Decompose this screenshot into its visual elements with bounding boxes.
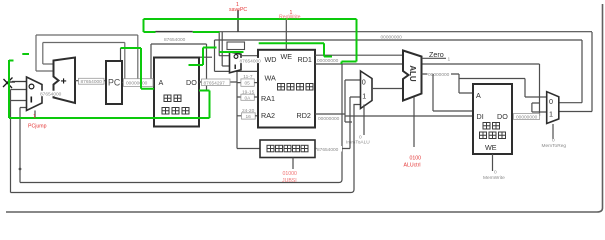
dark segment on y32 <box>156 31 193 33</box>
svg-text:ALU: ALU <box>408 65 417 82</box>
green: RegWrite right step down <box>342 19 357 64</box>
label value 00000000 ALU out <box>428 71 452 78</box>
label value 00000000 RD2 <box>318 116 342 122</box>
label value 87654000 at PC mux <box>40 91 64 98</box>
wire: PC enable stub <box>120 48 122 61</box>
wire: RD1 to ALU input A <box>315 54 403 56</box>
adder (PC+4) <box>54 58 76 104</box>
svg-text:00000000: 00000000 <box>126 81 148 87</box>
wire: RD2 out <box>315 113 345 115</box>
svg-text:WA: WA <box>265 74 277 83</box>
junction dot bottom left <box>19 168 22 171</box>
svg-text:0A: 0A <box>245 95 252 101</box>
svg-text:DI: DI <box>477 112 484 121</box>
svg-text:A: A <box>159 78 164 87</box>
svg-text:1: 1 <box>362 92 366 101</box>
svg-text:JUBSI: JUBSI <box>282 178 297 184</box>
mux MemToReg <box>547 92 559 124</box>
svg-text:1: 1 <box>549 110 553 119</box>
svg-text:PC: PC <box>108 78 121 88</box>
label 数据 pseudo glyphs <box>483 123 500 130</box>
label ALUctrl red <box>404 156 422 169</box>
svg-text:RD1: RD1 <box>298 55 312 64</box>
ALU <box>403 51 422 101</box>
wire: RD1 lower run y64 to right <box>315 63 540 65</box>
wire: PCjump mux out to adder input B <box>42 91 54 93</box>
svg-text:87654000: 87654000 <box>240 58 262 64</box>
svg-text:01000: 01000 <box>283 171 298 177</box>
wire: RD2 up to B-mux input 0 and DI run <box>345 80 473 122</box>
green: left bracket PCjump <box>9 60 14 118</box>
svg-text:0: 0 <box>362 78 366 87</box>
wire: ALU result to DM A <box>459 74 473 93</box>
label boxed 00000000 DM DO <box>514 114 540 121</box>
clock scribble <box>3 78 27 89</box>
wire: loop inner left into adder input A <box>43 43 54 65</box>
wire: ALU result right to MemToReg mux input 0 <box>459 79 547 98</box>
wire: savePC vertical <box>237 10 239 32</box>
wire: writeback top run 2 <box>215 39 583 41</box>
wire: bottom run 1 <box>20 64 342 183</box>
label 立即数生成 pseudo glyphs <box>267 145 308 152</box>
svg-text:A: A <box>476 91 481 100</box>
wire: PCjump mux select to green line <box>34 111 36 119</box>
label value 87654000 WD <box>239 58 264 65</box>
register file box <box>258 50 315 128</box>
label MemToReg <box>542 138 567 149</box>
svg-text:87654000: 87654000 <box>81 79 103 85</box>
label immgen select red <box>282 171 297 184</box>
mux PCjump (left) <box>27 77 43 111</box>
wire: adder out to PC <box>75 80 106 82</box>
mux WD (savePC mux) <box>230 52 242 73</box>
svg-text:0: 0 <box>552 138 555 144</box>
wire: PC+4 loop outer top <box>36 35 138 79</box>
label value 87654000 adder out boxed <box>79 78 105 85</box>
wire: bottom run 1 up-left to PC mux input <box>20 108 27 183</box>
svg-text:WE: WE <box>281 52 293 61</box>
wire: B-mux out to ALU input B <box>372 88 403 90</box>
mux ALU-B <box>361 71 373 109</box>
svg-text:87654297: 87654297 <box>204 80 226 86</box>
wire: immediate out to B-mux input 1 <box>315 97 361 149</box>
label 存储器 pseudo glyphs dm <box>480 132 506 139</box>
wire: bottom run 2 up-left to PC mux inputs <box>11 90 28 193</box>
label MemWrite <box>483 170 505 182</box>
svg-text:DO: DO <box>186 78 197 87</box>
svg-text:+: + <box>61 76 67 88</box>
svg-text:00000000: 00000000 <box>318 116 340 122</box>
svg-text:MemToReg: MemToReg <box>542 143 567 149</box>
svg-text:0: 0 <box>494 170 497 176</box>
label RegWrite <box>279 10 301 21</box>
svg-text:DO: DO <box>497 112 508 121</box>
wire: Zero out <box>422 50 451 63</box>
green: PC enable segment <box>121 48 155 89</box>
svg-text:RA2: RA2 <box>261 111 275 120</box>
svg-text:Zero: Zero <box>429 50 444 59</box>
bit slice 19-15 box <box>241 89 258 101</box>
immediate generator box <box>260 140 315 158</box>
label value 00000000 RD1 <box>317 58 341 64</box>
wire: WD mux out <box>241 55 260 57</box>
label value top 87654000 IM <box>164 37 186 43</box>
wire: ALU result branch down to DM DI lane <box>433 74 473 111</box>
svg-text:MemWrite: MemWrite <box>483 175 505 181</box>
data memory box <box>473 84 512 154</box>
green: segmented top line y32 <box>144 31 220 33</box>
svg-text:1: 1 <box>33 114 36 120</box>
wire: PC+4 loop inner top <box>43 43 125 80</box>
svg-text:87654000: 87654000 <box>164 37 186 43</box>
wire: B-mux select down <box>363 105 365 136</box>
wire: ALUctrl down <box>413 97 415 147</box>
green: RegWrite into regfile WE <box>259 43 332 56</box>
wire: instruction DO out <box>199 81 237 83</box>
svg-text:WD: WD <box>265 55 277 64</box>
label ImmToALU <box>346 135 370 146</box>
svg-text:00000000: 00000000 <box>516 114 538 120</box>
label 存储器 pseudo glyphs <box>162 108 189 115</box>
svg-text:savePC: savePC <box>229 7 247 13</box>
label value 87654000 imm <box>317 146 343 153</box>
svg-text:RegWrite: RegWrite <box>279 15 301 21</box>
wire: writeback top run 1 <box>219 31 592 33</box>
register PC <box>106 61 122 104</box>
svg-text:00000000: 00000000 <box>381 35 403 41</box>
wire: PC out to instruction memory A <box>122 82 154 84</box>
wire: run y64 right part down to MemToReg input 1 <box>532 64 547 116</box>
label savePC <box>229 2 247 13</box>
green: RegWrite top line <box>144 19 357 32</box>
green: segment over WD mux <box>219 51 243 53</box>
svg-text:05: 05 <box>245 81 251 87</box>
wire: MemToReg mux out upper to right loop inner <box>559 40 582 103</box>
green: small dash top left <box>22 53 29 55</box>
wire: instruction vertical distribution <box>237 71 260 148</box>
wire: top run 2 down to regfile WA <box>215 40 259 71</box>
wire: DM WE select down <box>492 154 494 171</box>
instruction memory box <box>154 58 199 127</box>
label boxed 00000000 PC out <box>123 79 153 87</box>
wire: rect loop above WD mux <box>227 42 245 50</box>
wire: top run 1 down to WD mux input 0 <box>219 32 229 66</box>
wire: RegWrite drop gray <box>285 19 287 50</box>
wire: bottom run 2 <box>11 105 365 193</box>
svg-text:ImmToALU: ImmToALU <box>346 140 370 146</box>
label PCjump <box>28 114 47 130</box>
bit slice 11-7 box <box>241 74 258 87</box>
label value 00000000 top right <box>381 35 403 41</box>
svg-text:00000000: 00000000 <box>428 72 450 78</box>
svg-text:0100: 0100 <box>410 156 422 162</box>
wire: loop outer left down and into adder region <box>36 35 54 71</box>
svg-text:RA1: RA1 <box>261 94 275 103</box>
svg-text:0: 0 <box>549 97 553 106</box>
bit slice 24-20 box <box>242 108 259 120</box>
svg-text:87654000: 87654000 <box>40 91 62 97</box>
svg-text:PCjump: PCjump <box>28 124 47 130</box>
svg-text:WE: WE <box>485 143 497 152</box>
wire: MemToReg mux out lower to right loop outer <box>559 32 592 112</box>
svg-text:87654000: 87654000 <box>317 147 339 153</box>
wire: MemToReg select down <box>552 124 554 139</box>
label boxed 87654297 <box>202 79 231 86</box>
wire: ALU out <box>422 73 460 75</box>
green: PCjump bottom long line <box>9 91 210 119</box>
svg-text:1: 1 <box>448 57 451 63</box>
svg-text:ALUctrl: ALUctrl <box>404 163 421 169</box>
wire: stub right of IM top <box>198 56 212 58</box>
label 寄存器堆 pseudo glyphs <box>278 84 314 91</box>
svg-text:RD2: RD2 <box>297 111 311 120</box>
svg-text:00000000: 00000000 <box>317 58 339 64</box>
wire: immgen select down <box>292 158 294 170</box>
green: savePC area loop right of IM <box>189 48 217 66</box>
label 指令 pseudo glyphs <box>164 95 181 102</box>
wire: loop around instruction memory top <box>151 44 207 91</box>
svg-text:16: 16 <box>246 114 252 120</box>
